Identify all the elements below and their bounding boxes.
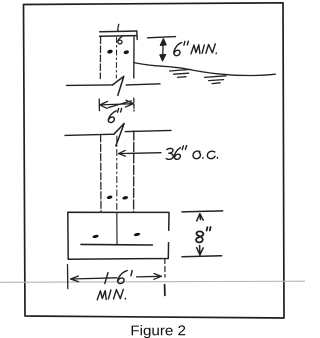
grade 6in vertical dimension arrow	[160, 39, 166, 61]
lower break line left segment	[65, 134, 114, 135]
width dimension extension line left	[98, 99, 100, 111]
footing rebar	[81, 243, 152, 246]
grade dimension extension line	[148, 37, 176, 38]
depth arrow down	[197, 246, 204, 255]
lower break line right segment	[125, 130, 171, 131]
upper break line right segment	[126, 84, 160, 85]
footing width extension line right	[164, 259, 166, 278]
width dimension arrows	[100, 100, 134, 108]
lower bolt dot left	[106, 195, 112, 200]
bolt dot upper-left	[107, 49, 114, 54]
upper break symbol	[112, 76, 123, 95]
post right edge	[133, 37, 135, 78]
anchor bolt curl below cap	[118, 37, 122, 44]
earth hatch marks right group	[205, 76, 226, 84]
label 16ft	[105, 271, 132, 284]
label 8in	[196, 227, 211, 242]
post left edge	[99, 37, 101, 79]
post centerline into footing	[116, 213, 118, 244]
label 6in MIN	[174, 41, 188, 55]
upper break line left segment	[67, 84, 113, 87]
post cap plate	[100, 30, 137, 33]
width dimension extension line right	[133, 98, 135, 111]
spacing leader arrow	[119, 150, 161, 156]
depth dimension bottom tick line	[182, 255, 222, 258]
footing width extension line left	[67, 265, 69, 289]
tick mark above cap	[118, 24, 119, 31]
label MIN bottom	[97, 289, 125, 300]
width label 6in	[108, 108, 121, 122]
depth arrow up	[197, 214, 204, 221]
footing width dimension arrows	[71, 274, 162, 282]
lower bolt dot right	[122, 196, 128, 201]
footing right edge photocopy gap	[167, 233, 170, 241]
lower break symbol	[114, 123, 124, 145]
rebar dot left	[92, 234, 99, 238]
post centerline	[115, 38, 117, 79]
footing outline	[68, 212, 169, 259]
depth dimension top tick line	[182, 211, 223, 212]
bolt dot upper-right	[123, 50, 129, 55]
label 36in O.C.	[166, 146, 217, 160]
earth hatch marks left group	[170, 69, 191, 77]
caption Figure 2	[132, 325, 186, 338]
rebar dot right	[133, 232, 140, 236]
grade ground line	[134, 63, 275, 76]
